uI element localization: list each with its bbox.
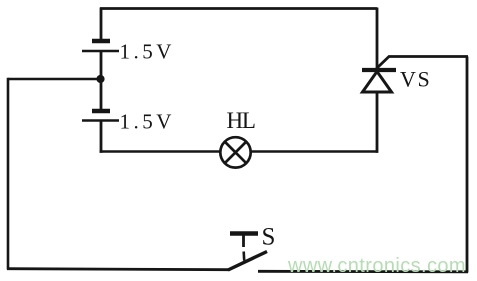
svg-text:www.cntronics.com: www.cntronics.com	[287, 255, 466, 277]
node junction dot	[96, 75, 104, 83]
wire bottom right segment	[258, 270, 468, 273]
switch S actuator bar	[230, 231, 258, 235]
switch S actuator stem	[242, 235, 245, 247]
wire left vertical	[7, 78, 10, 270]
switch S plunger dash	[242, 252, 245, 261]
battery G2 positive bar (long thin)	[82, 119, 119, 122]
svg-text:VS: VS	[400, 67, 431, 92]
wire thyristor top lead	[376, 8, 379, 71]
wire middle horizontal left of lamp	[100, 150, 221, 153]
thyristor VS	[362, 70, 396, 92]
wire left branch horizontal	[8, 78, 100, 81]
wire battery top lead	[100, 8, 103, 42]
svg-text:1.5V: 1.5V	[120, 40, 175, 64]
wire top horizontal	[100, 7, 377, 10]
wire bottom left segment	[7, 269, 229, 270]
svg-text:HL: HL	[227, 108, 255, 133]
wire battery bottom lead	[100, 121, 103, 153]
battery G1 positive bar (long thin)	[82, 50, 119, 53]
svg-text:1.5V: 1.5V	[120, 110, 175, 134]
switch S blade	[228, 252, 267, 271]
battery G1 negative bar (short thick)	[92, 39, 110, 44]
battery G2 negative bar (short thick)	[92, 109, 110, 114]
wire thyristor bottom lead	[376, 91, 379, 153]
svg-text:S: S	[262, 224, 276, 251]
wire right vertical	[466, 57, 469, 273]
lamp HL	[220, 137, 250, 167]
wire gate lead	[377, 57, 469, 69]
wire middle horizontal right of lamp	[250, 150, 378, 153]
wire battery middle segment	[100, 51, 103, 111]
